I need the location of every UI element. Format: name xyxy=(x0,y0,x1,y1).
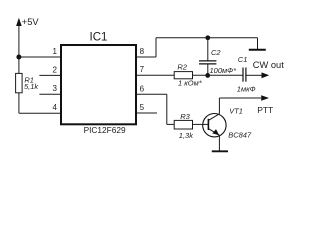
wire: C2 top lead xyxy=(207,38,209,61)
wire: collector up to PTT xyxy=(218,98,220,114)
wire: R2 to C1 xyxy=(193,74,243,76)
wire: C1 to CW out arrow xyxy=(247,74,263,76)
capacitor C2 xyxy=(199,61,216,64)
wire: pin 3 stub xyxy=(39,93,61,95)
svg-text:100мФ*: 100мФ* xyxy=(210,66,238,75)
wire: pin 2 stub xyxy=(39,74,61,76)
svg-text:CW out: CW out xyxy=(253,60,284,70)
node: C2 bottom junction xyxy=(205,73,210,78)
resistor R2 xyxy=(174,72,192,79)
transistor VT1 BC847 xyxy=(203,114,226,137)
svg-text:4: 4 xyxy=(53,103,58,112)
wire: +5V rail down to R1 xyxy=(18,57,20,73)
wire: R1 bottom to pin 4 xyxy=(18,93,20,113)
svg-text:1,3k: 1,3k xyxy=(179,131,194,140)
svg-text:BC847: BC847 xyxy=(228,131,252,140)
svg-text:VT1: VT1 xyxy=(229,107,243,116)
wire: C2 bottom lead xyxy=(207,64,209,75)
PTT arrow xyxy=(261,95,269,101)
node: junction dot on +5V rail xyxy=(16,55,21,60)
wire: pin 7 to R2 xyxy=(137,74,174,76)
resistor R3 xyxy=(174,120,192,129)
ground top right xyxy=(249,38,266,50)
wire: emitter down xyxy=(218,135,220,151)
svg-text:C1: C1 xyxy=(238,55,248,64)
CW out arrow xyxy=(262,72,270,78)
wire: pin 5 stub xyxy=(137,112,157,114)
ground under emitter xyxy=(212,150,228,152)
svg-text:7: 7 xyxy=(140,65,145,74)
svg-text:PIC12F629: PIC12F629 xyxy=(84,125,126,135)
svg-text:2: 2 xyxy=(53,65,58,74)
+5V power arrow xyxy=(16,18,22,57)
node: C2 top junction xyxy=(205,35,210,40)
svg-text:R3: R3 xyxy=(180,112,190,121)
wire: pin 6 to R3 xyxy=(137,93,167,95)
svg-text:1мкФ: 1мкФ xyxy=(237,84,256,93)
svg-text:1 кОм*: 1 кОм* xyxy=(178,78,203,87)
svg-text:PTT: PTT xyxy=(257,105,273,115)
svg-text:+5V: +5V xyxy=(22,17,40,27)
wire: top rail xyxy=(156,37,258,39)
svg-text:C2: C2 xyxy=(211,48,221,57)
svg-text:6: 6 xyxy=(140,84,145,93)
IC IC1 PIC12F629 body xyxy=(61,45,136,124)
svg-text:1: 1 xyxy=(53,47,58,56)
svg-text:IC1: IC1 xyxy=(90,31,108,43)
wire: pin 1 xyxy=(19,56,61,58)
capacitor C1 xyxy=(243,68,246,82)
wire: pin 8 to top rail xyxy=(137,56,156,58)
svg-text:8: 8 xyxy=(140,47,145,56)
svg-text:5: 5 xyxy=(140,103,145,112)
wire: R3 to base xyxy=(193,123,209,125)
svg-text:R2: R2 xyxy=(177,63,187,72)
svg-text:3: 3 xyxy=(53,84,58,93)
svg-text:5,1k: 5,1k xyxy=(24,82,39,91)
resistor R1 xyxy=(16,73,23,92)
